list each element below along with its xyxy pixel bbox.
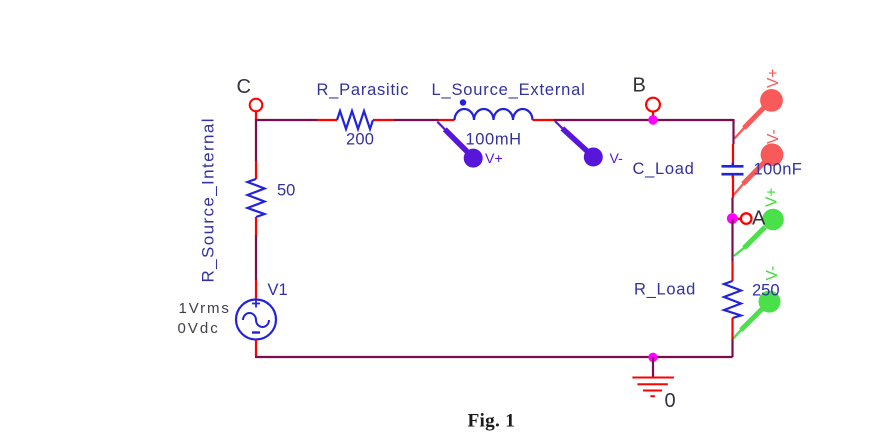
svg-text:Fig. 1: Fig. 1: [468, 410, 516, 431]
node C pin circle: [250, 99, 263, 112]
svg-text:V-: V-: [765, 129, 782, 144]
pin 1 dot of L_Source_External: [460, 99, 466, 105]
svg-text:0Vdc: 0Vdc: [178, 320, 220, 337]
voltage source V1: [236, 300, 276, 340]
wire: node A to R_Load: [731, 219, 733, 281]
wire: node C stub: [255, 112, 257, 121]
wire: L_Source_External to node B: [533, 119, 734, 121]
junction dot at node A: [727, 213, 738, 224]
wire: left vertical C to R_Source_Internal: [255, 119, 257, 179]
svg-text:L_Source_External: L_Source_External: [432, 81, 586, 99]
svg-text:0: 0: [665, 390, 676, 412]
capacitor C_Load: [722, 163, 744, 179]
voltage probe V- (red) at capacitor bottom: [733, 143, 784, 196]
svg-text:C_Load: C_Load: [633, 160, 695, 178]
svg-text:R_Source_Internal: R_Source_Internal: [199, 117, 218, 282]
wire: top horizontal C to R_Parasitic: [255, 119, 337, 121]
resistor R_Parasitic: [337, 111, 373, 129]
wire: R_Parasitic to L_Source_External: [373, 119, 455, 121]
wire: V1 to bottom rail: [255, 340, 257, 357]
svg-text:R_Load: R_Load: [634, 280, 696, 298]
resistor R_Source_Internal: [248, 179, 265, 217]
wire: C_Load to node A: [732, 176, 734, 198]
svg-text:100nF: 100nF: [754, 161, 803, 179]
node A pin circle: [741, 213, 752, 224]
differential probe V+ on inductor pin 1: [437, 122, 482, 168]
svg-text:V+: V+: [765, 69, 782, 88]
svg-text:A: A: [752, 208, 766, 230]
inductor L_Source_External: [455, 109, 533, 120]
node A stub: [738, 218, 741, 221]
svg-text:C: C: [237, 76, 251, 98]
svg-text:1Vrms: 1Vrms: [179, 300, 231, 317]
svg-text:100mH: 100mH: [466, 130, 522, 148]
wire: bottom rail: [255, 356, 733, 358]
svg-text:V-: V-: [764, 266, 781, 281]
node B stub: [652, 112, 654, 118]
junction dot at node B: [648, 115, 658, 125]
svg-text:V+: V+: [485, 151, 503, 167]
voltage probe V+ (red) at node B net: [735, 89, 783, 139]
wire: R_Load to bottom rail: [731, 318, 733, 357]
resistor R_Load: [724, 281, 741, 318]
wire: right vertical top to C_Load: [732, 119, 735, 165]
svg-text:250: 250: [752, 281, 780, 299]
ground symbol 0: [632, 357, 674, 396]
svg-text:200: 200: [346, 130, 374, 148]
differential probe V- on inductor pin 2: [555, 121, 603, 167]
junction dot at ground: [648, 353, 657, 362]
svg-text:V1: V1: [268, 281, 288, 299]
svg-text:R_Parasitic: R_Parasitic: [317, 81, 410, 99]
svg-text:50: 50: [277, 182, 295, 200]
node B pin circle: [646, 98, 660, 112]
svg-text:V-: V-: [610, 150, 624, 166]
wire: R_Source_Internal to V1: [255, 217, 257, 300]
voltage probe V- (green) at R_Load bottom: [733, 291, 780, 339]
svg-text:B: B: [633, 75, 646, 97]
voltage probe V+ (green) at node A: [734, 209, 784, 256]
svg-text:V+: V+: [764, 188, 781, 207]
